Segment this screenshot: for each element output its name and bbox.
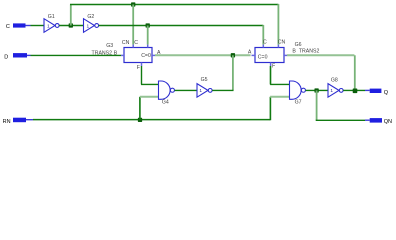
- node on C net above G3 C pin: [146, 23, 150, 27]
- inverter G8: [328, 77, 343, 97]
- svg-text:G6: G6: [295, 42, 302, 48]
- wire G3 F down and to G4 input: [141, 66, 159, 84]
- wire G4 output to G5: [175, 89, 197, 91]
- node Q net junction: [353, 89, 358, 94]
- wire G5 output to riser: [212, 89, 233, 91]
- transmission gate G6 TRANS2: [248, 40, 320, 70]
- wire G7 output to G8: [306, 89, 328, 91]
- svg-text:1: 1: [87, 23, 90, 29]
- svg-text:C=0: C=0: [258, 55, 268, 61]
- wire G6 F down and to G7 input: [270, 66, 289, 84]
- wire G6 B output net (pale) to Q node: [287, 55, 355, 90]
- svg-text:A: A: [248, 49, 252, 55]
- wire G3 A output net (pale): [155, 54, 251, 56]
- svg-text:G4: G4: [162, 100, 169, 106]
- svg-text:B: B: [292, 49, 296, 55]
- transmission gate G3 TRANS2: [92, 40, 161, 71]
- wire C input to G1: [31, 25, 45, 27]
- wire C net down to G6 C pin: [262, 25, 264, 45]
- svg-text:C=0: C=0: [141, 53, 151, 59]
- wire RN riser to G4 lower input: [140, 97, 159, 120]
- nand gate G4: [159, 81, 175, 106]
- svg-text:G2: G2: [87, 14, 94, 20]
- wire top rail down to G6 CN pin: [277, 4, 279, 45]
- svg-text:Q: Q: [384, 90, 389, 96]
- node on A net above G5 output riser: [231, 53, 235, 57]
- wire RN riser to G7 lower input: [270, 97, 289, 120]
- input pin D: [4, 53, 30, 60]
- wire G1 output to G2: [59, 25, 83, 27]
- svg-text:1: 1: [330, 88, 333, 94]
- wire riser G5 output to A net: [232, 55, 234, 90]
- node on top rail above G3 CN: [131, 2, 135, 6]
- svg-text:TRANS2: TRANS2: [92, 51, 113, 57]
- svg-text:C: C: [263, 40, 267, 46]
- nand gate G7: [290, 81, 306, 106]
- svg-text:G8: G8: [331, 77, 338, 83]
- wire G2 output C net: [99, 25, 264, 27]
- node on RN rail below G4: [138, 118, 142, 122]
- wire C net down to G3 C pin: [147, 26, 149, 45]
- svg-text:CN: CN: [278, 40, 286, 46]
- svg-text:TRANS2: TRANS2: [299, 49, 320, 55]
- svg-text:F: F: [272, 63, 275, 69]
- input pin C: [6, 23, 31, 30]
- output pin Q: [365, 89, 389, 96]
- wire top rail CN net: [70, 4, 278, 6]
- wire D input to G3 B: [31, 54, 122, 56]
- wire node N1 up to top rail: [70, 5, 72, 26]
- svg-text:C: C: [6, 24, 10, 30]
- svg-text:G3: G3: [106, 43, 113, 49]
- node N1 junction: [69, 23, 73, 27]
- wire QN net down and right to QN pin: [316, 90, 365, 120]
- svg-text:G5: G5: [201, 77, 208, 83]
- svg-text:1: 1: [47, 23, 50, 29]
- svg-text:QN: QN: [384, 119, 392, 125]
- input pin RN: [3, 118, 33, 126]
- svg-text:RN: RN: [3, 119, 11, 125]
- inverter G2: [84, 14, 99, 32]
- svg-text:G1: G1: [48, 14, 55, 20]
- svg-text:G7: G7: [295, 100, 302, 106]
- inverter G5: [197, 77, 212, 97]
- svg-text:C: C: [134, 40, 138, 46]
- svg-text:1: 1: [199, 88, 202, 94]
- svg-text:B: B: [114, 51, 118, 57]
- wire top rail down to G3 CN pin: [132, 5, 134, 45]
- output pin QN: [365, 118, 392, 125]
- wire RN input rail: [33, 119, 270, 121]
- inverter G1: [44, 14, 59, 32]
- svg-text:F: F: [137, 65, 140, 71]
- svg-text:D: D: [4, 54, 8, 60]
- svg-text:CN: CN: [122, 40, 130, 46]
- node QN net at G7 output: [314, 88, 318, 92]
- wire G8 output to Q pin: [343, 89, 365, 91]
